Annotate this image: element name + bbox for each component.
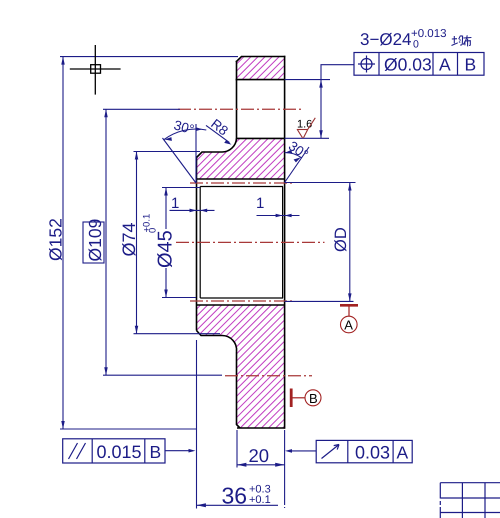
svg-text:Ø152: Ø152 [46, 218, 66, 261]
dimension Ø74 [134, 152, 221, 334]
centerline: bolt circle top [178, 108, 302, 110]
part outline: bottom section top face [197, 304, 285, 306]
svg-text:+0.1: +0.1 [249, 494, 271, 506]
svg-text:Ø0.03: Ø0.03 [384, 55, 432, 75]
dimension 1 (left groove width) [170, 209, 215, 211]
runout leader [288, 450, 316, 452]
hatch: bottom flange section [197, 305, 285, 428]
part outline: bore top line [200, 186, 283, 188]
parallelism leader [165, 450, 193, 452]
svg-text:3−Ø24: 3−Ø24 [360, 30, 412, 49]
crosshair blip marker top-left [70, 45, 121, 95]
centerline: main axis [176, 241, 325, 243]
dimension 36 +0.3/+0.1 [197, 340, 285, 510]
centerline: groove circle bottom [190, 300, 293, 302]
svg-text:1: 1 [256, 195, 264, 212]
title block grid bottom-right [440, 483, 500, 518]
svg-text:B: B [465, 55, 477, 75]
dimension 1 (right groove width) [257, 215, 300, 217]
part outline: bore groove walls [200, 187, 282, 299]
dimension Ø109 (boxed) [83, 109, 222, 375]
part outline: web bottom edge [197, 178, 285, 180]
CJK 均布 drawn as strokes [452, 35, 472, 46]
centerline: groove circle top [190, 182, 293, 184]
part outline: hub top surface and chamfer [197, 152, 223, 158]
dimension Ø152 [60, 57, 238, 429]
part outline: web top edge [237, 137, 285, 139]
svg-text:ØD: ØD [332, 227, 350, 252]
dimension Ø45 +0.1/0 [162, 188, 200, 298]
centerline: bolt circle bottom [225, 375, 312, 377]
svg-text:0.015: 0.015 [97, 442, 142, 462]
svg-text:1: 1 [171, 195, 179, 212]
svg-text:20: 20 [249, 445, 270, 466]
part outline: bore bottom line [200, 297, 283, 299]
hatch: middle web section [197, 138, 285, 179]
part outline: flange front face bottom [237, 352, 241, 429]
hatch: top rim section [237, 57, 285, 80]
svg-text:0: 0 [148, 228, 159, 233]
part outline: bolt hole walls [237, 57, 285, 429]
dimension Ø24 vertical with leader to position frame [285, 65, 354, 139]
angle dimension 30° (right chamfer) [285, 147, 309, 183]
datum target B [291, 389, 321, 408]
svg-text:Ø45: Ø45 [155, 230, 177, 268]
part outline: R8 fillet top [222, 138, 237, 152]
svg-text:B: B [309, 391, 318, 406]
svg-text:0: 0 [413, 39, 419, 51]
part outline: hub front face [196, 158, 198, 331]
angle dimension 30° (left chamfer) [163, 124, 207, 183]
circular runout tolerance frame [316, 440, 412, 462]
svg-text:B: B [150, 442, 162, 462]
part outline: flange bottom edge [237, 427, 285, 429]
dimension ØD [285, 183, 356, 302]
part outline: top rim [237, 57, 285, 80]
svg-text:A: A [439, 55, 451, 75]
svg-text:Ø74: Ø74 [119, 222, 139, 256]
svg-text:A: A [344, 318, 353, 333]
datum target A [340, 305, 358, 333]
part outline: hub bottom surface and chamfer [197, 331, 223, 336]
svg-text:0.03: 0.03 [355, 443, 390, 463]
dimension 20 [237, 430, 285, 501]
svg-text:36: 36 [222, 483, 248, 509]
part outline: R8 fillet bottom [222, 335, 237, 351]
position tolerance frame [354, 53, 484, 76]
svg-text:Ø109: Ø109 [85, 219, 105, 262]
svg-text:A: A [397, 443, 409, 463]
parallelism tolerance frame [63, 439, 165, 463]
svg-text:1.6: 1.6 [297, 119, 312, 131]
